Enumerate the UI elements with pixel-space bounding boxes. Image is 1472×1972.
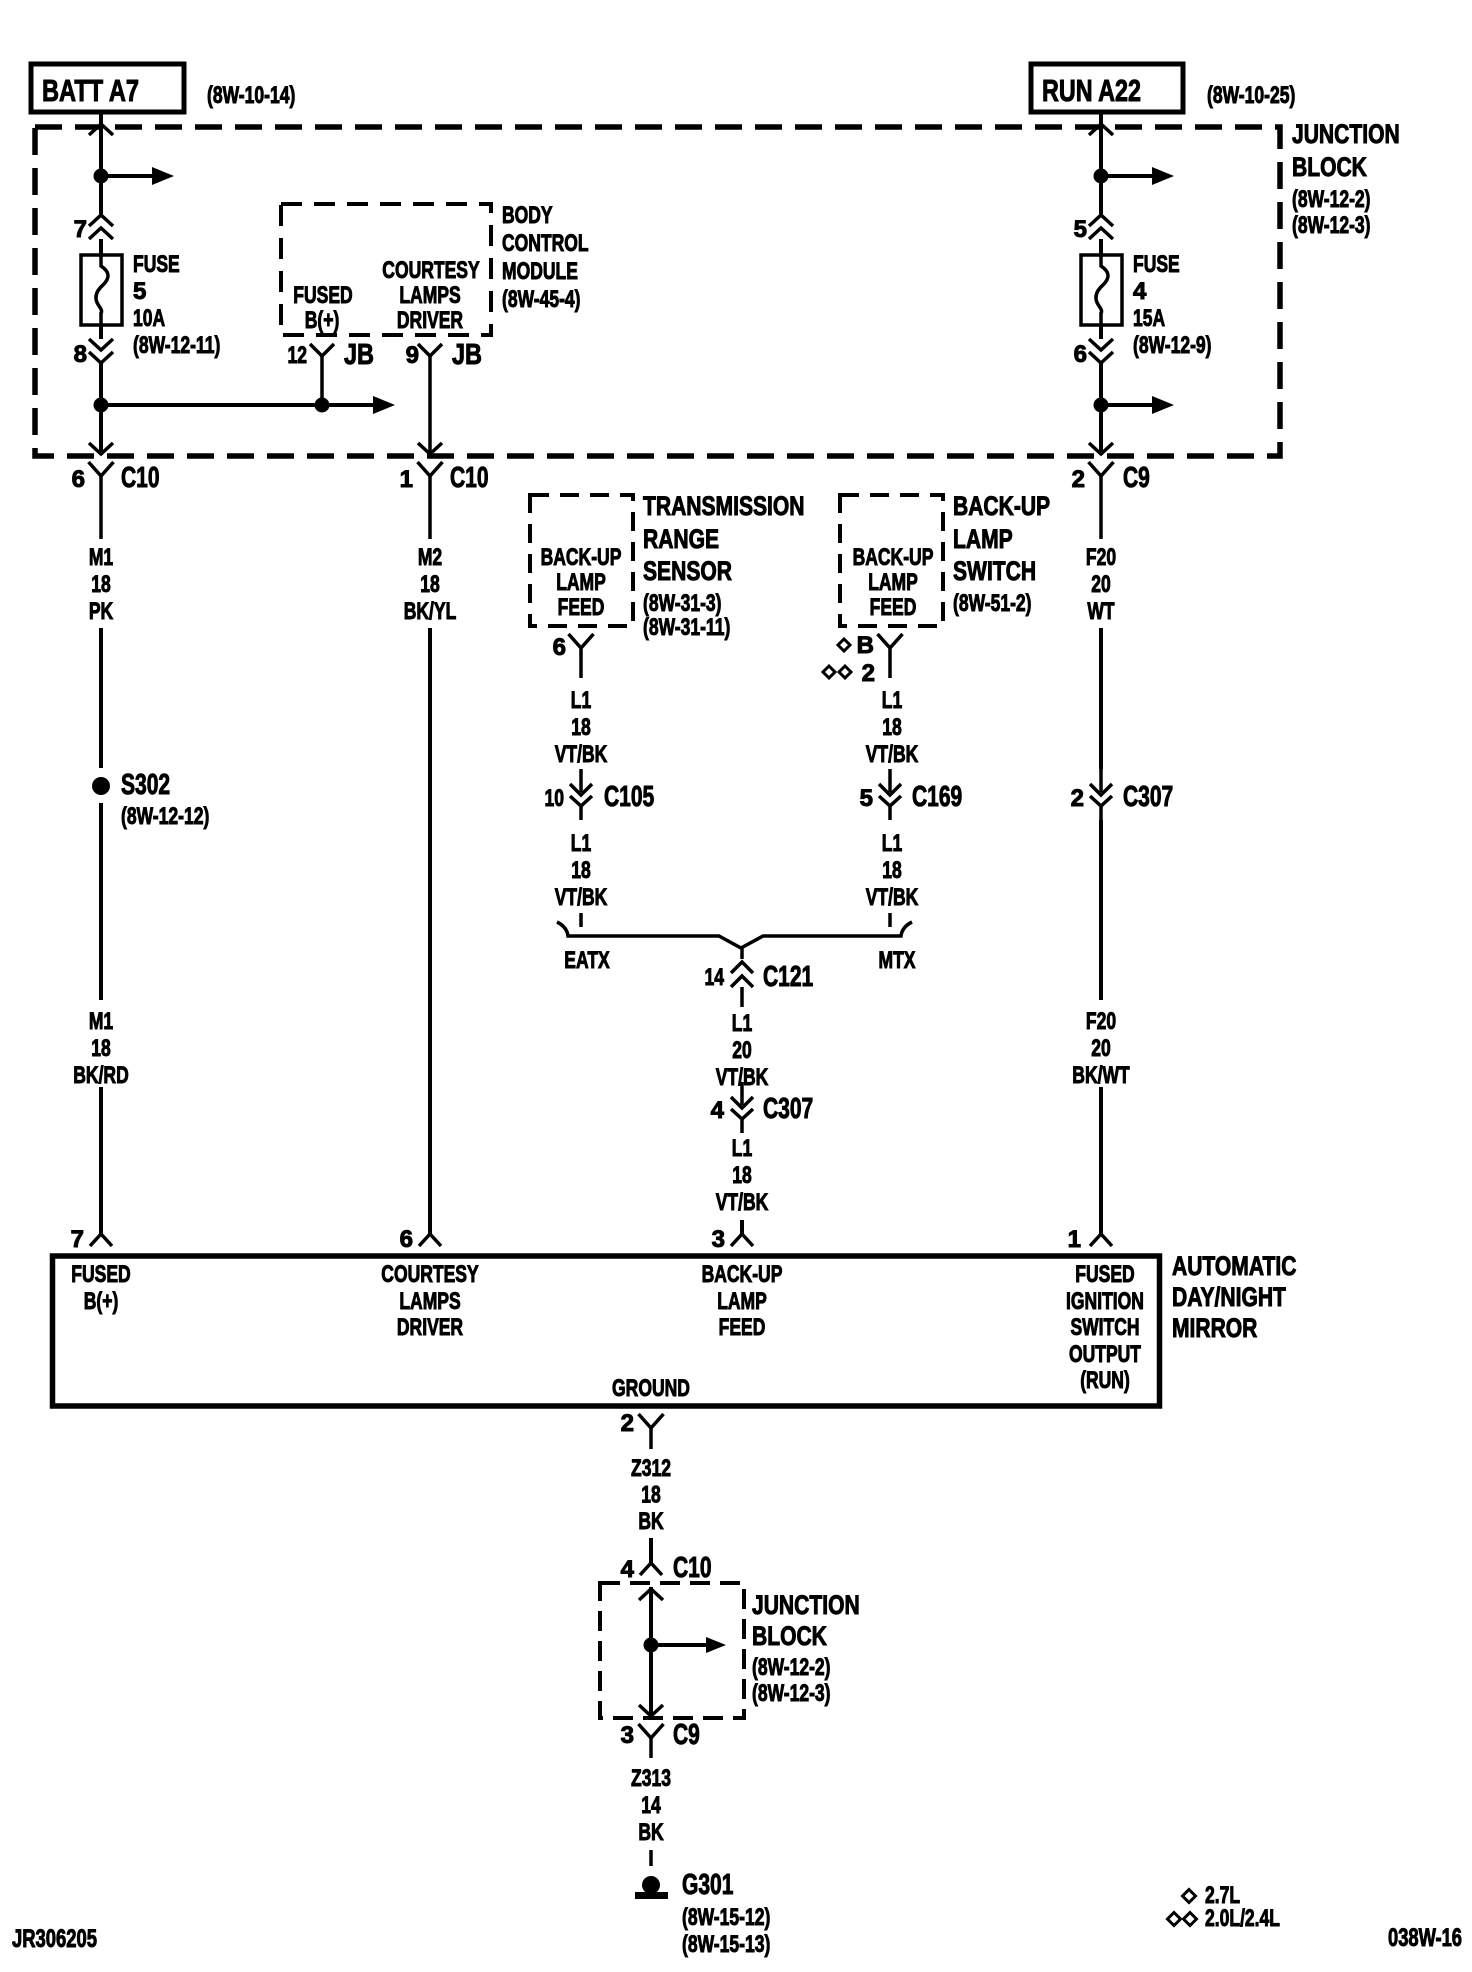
svg-text:BK/YL: BK/YL xyxy=(404,598,457,625)
svg-text:Z313: Z313 xyxy=(631,1765,671,1792)
svg-text:2: 2 xyxy=(1071,785,1084,812)
svg-text:20: 20 xyxy=(732,1037,752,1064)
svg-text:M1: M1 xyxy=(89,1008,113,1035)
svg-text:BACK-UP: BACK-UP xyxy=(953,491,1050,521)
svg-text:7: 7 xyxy=(74,216,87,243)
svg-text:(8W-31-3): (8W-31-3) xyxy=(643,590,722,617)
svg-text:8: 8 xyxy=(74,341,87,368)
svg-text:BACK-UP: BACK-UP xyxy=(702,1261,783,1288)
svg-text:B(+): B(+) xyxy=(84,1288,119,1315)
svg-text:MIRROR: MIRROR xyxy=(1172,1313,1257,1343)
svg-text:FEED: FEED xyxy=(558,594,605,621)
svg-text:JUNCTION: JUNCTION xyxy=(752,1590,860,1620)
svg-text:5: 5 xyxy=(133,278,146,305)
svg-text:C307: C307 xyxy=(763,1093,813,1125)
svg-text:SENSOR: SENSOR xyxy=(643,556,732,586)
svg-text:GROUND: GROUND xyxy=(612,1375,690,1402)
svg-text:BK/RD: BK/RD xyxy=(73,1062,129,1089)
svg-text:FUSE: FUSE xyxy=(133,251,180,278)
svg-text:VT/BK: VT/BK xyxy=(716,1189,769,1216)
svg-text:L1: L1 xyxy=(882,687,902,714)
svg-text:6: 6 xyxy=(553,634,566,661)
svg-text:(8W-15-12): (8W-15-12) xyxy=(682,1904,770,1931)
svg-text:(8W-45-4): (8W-45-4) xyxy=(502,286,581,313)
svg-text:20: 20 xyxy=(1091,1035,1111,1062)
svg-text:DAY/NIGHT: DAY/NIGHT xyxy=(1172,1282,1286,1312)
svg-text:C169: C169 xyxy=(912,781,962,813)
svg-text:WT: WT xyxy=(1087,598,1114,625)
svg-text:JR306205: JR306205 xyxy=(12,1925,97,1953)
svg-text:FUSED: FUSED xyxy=(1075,1261,1134,1288)
svg-text:LAMPS: LAMPS xyxy=(399,282,460,309)
svg-text:FUSED: FUSED xyxy=(293,282,352,309)
svg-text:MTX: MTX xyxy=(879,947,916,974)
svg-text:(8W-12-9): (8W-12-9) xyxy=(1133,332,1212,359)
svg-text:SWITCH: SWITCH xyxy=(1070,1314,1139,1341)
svg-text:C9: C9 xyxy=(673,1719,700,1751)
svg-text:L1: L1 xyxy=(571,687,591,714)
svg-text:2.0L/2.4L: 2.0L/2.4L xyxy=(1205,1905,1280,1932)
svg-text:10A: 10A xyxy=(133,305,165,332)
svg-text:18: 18 xyxy=(571,857,591,884)
svg-text:10: 10 xyxy=(545,785,565,812)
svg-text:VT/BK: VT/BK xyxy=(866,741,919,768)
svg-text:4: 4 xyxy=(1133,278,1147,305)
svg-text:1: 1 xyxy=(400,466,413,493)
svg-text:18: 18 xyxy=(91,1035,111,1062)
svg-text:B(+): B(+) xyxy=(305,307,340,334)
svg-text:15A: 15A xyxy=(1133,305,1165,332)
svg-text:LAMP: LAMP xyxy=(556,569,606,596)
svg-text:BK/WT: BK/WT xyxy=(1072,1062,1130,1089)
svg-text:COURTESY: COURTESY xyxy=(381,1261,478,1288)
svg-text:RANGE: RANGE xyxy=(643,524,719,554)
svg-text:BK: BK xyxy=(638,1508,664,1535)
svg-text:(8W-51-2): (8W-51-2) xyxy=(953,590,1032,617)
svg-text:(8W-12-2): (8W-12-2) xyxy=(1292,186,1371,213)
svg-text:5: 5 xyxy=(860,785,873,812)
svg-text:5: 5 xyxy=(1074,216,1087,243)
svg-text:IGNITION: IGNITION xyxy=(1066,1288,1144,1315)
svg-text:JB: JB xyxy=(344,339,374,371)
svg-text:9: 9 xyxy=(406,342,419,369)
svg-text:(8W-15-13): (8W-15-13) xyxy=(682,1931,770,1958)
svg-text:C10: C10 xyxy=(121,462,160,494)
svg-text:1: 1 xyxy=(1068,1226,1081,1253)
svg-text:VT/BK: VT/BK xyxy=(555,884,608,911)
svg-text:14: 14 xyxy=(641,1792,661,1819)
svg-text:18: 18 xyxy=(882,857,902,884)
svg-text:6: 6 xyxy=(1074,341,1087,368)
svg-text:BATT A7: BATT A7 xyxy=(42,73,139,108)
svg-text:BLOCK: BLOCK xyxy=(752,1621,827,1651)
svg-text:C10: C10 xyxy=(673,1552,712,1584)
svg-text:18: 18 xyxy=(420,571,440,598)
svg-text:LAMPS: LAMPS xyxy=(399,1288,460,1315)
svg-text:OUTPUT: OUTPUT xyxy=(1069,1341,1141,1368)
svg-text:LAMP: LAMP xyxy=(953,524,1013,554)
svg-text:(8W-12-3): (8W-12-3) xyxy=(752,1680,831,1707)
svg-text:12: 12 xyxy=(288,342,308,369)
svg-text:C10: C10 xyxy=(450,462,489,494)
svg-text:(8W-12-3): (8W-12-3) xyxy=(1292,212,1371,239)
svg-text:FUSED: FUSED xyxy=(71,1261,130,1288)
svg-text:LAMP: LAMP xyxy=(717,1288,767,1315)
svg-text:4: 4 xyxy=(711,1097,725,1124)
svg-text:Z312: Z312 xyxy=(631,1455,671,1482)
svg-text:F20: F20 xyxy=(1086,544,1116,571)
svg-text:(8W-31-11): (8W-31-11) xyxy=(643,614,730,641)
svg-text:(8W-12-12): (8W-12-12) xyxy=(121,803,209,830)
svg-text:L1: L1 xyxy=(732,1010,752,1037)
svg-text:M2: M2 xyxy=(418,544,442,571)
svg-text:FEED: FEED xyxy=(719,1314,766,1341)
svg-text:SWITCH: SWITCH xyxy=(953,556,1036,586)
svg-text:C121: C121 xyxy=(763,961,813,993)
svg-text:G301: G301 xyxy=(682,1869,733,1901)
svg-text:7: 7 xyxy=(71,1226,84,1253)
svg-text:DRIVER: DRIVER xyxy=(397,1314,463,1341)
svg-text:BACK-UP: BACK-UP xyxy=(853,544,934,571)
svg-text:JUNCTION: JUNCTION xyxy=(1292,119,1400,149)
svg-text:DRIVER: DRIVER xyxy=(397,307,463,334)
svg-text:M1: M1 xyxy=(89,544,113,571)
svg-text:18: 18 xyxy=(732,1162,752,1189)
svg-text:C307: C307 xyxy=(1123,781,1173,813)
svg-text:(8W-12-2): (8W-12-2) xyxy=(752,1654,831,1681)
svg-text:L1: L1 xyxy=(571,830,591,857)
svg-text:BODY: BODY xyxy=(502,202,553,229)
svg-text:3: 3 xyxy=(621,1722,634,1749)
svg-text:BACK-UP: BACK-UP xyxy=(541,544,622,571)
svg-text:C105: C105 xyxy=(604,781,654,813)
svg-text:CONTROL: CONTROL xyxy=(502,230,589,257)
svg-text:VT/BK: VT/BK xyxy=(555,741,608,768)
svg-text:18: 18 xyxy=(91,571,111,598)
svg-text:18: 18 xyxy=(882,714,902,741)
svg-text:LAMP: LAMP xyxy=(868,569,918,596)
svg-text:14: 14 xyxy=(705,964,725,991)
svg-text:2: 2 xyxy=(862,660,875,687)
svg-text:PK: PK xyxy=(89,598,114,625)
svg-text:C9: C9 xyxy=(1123,462,1150,494)
svg-text:2: 2 xyxy=(1072,466,1085,493)
svg-text:VT/BK: VT/BK xyxy=(866,884,919,911)
svg-text:18: 18 xyxy=(571,714,591,741)
svg-text:2: 2 xyxy=(621,1410,634,1437)
svg-text:(8W-10-14): (8W-10-14) xyxy=(207,82,295,109)
svg-text:BLOCK: BLOCK xyxy=(1292,152,1367,182)
svg-text:(RUN): (RUN) xyxy=(1080,1367,1130,1394)
svg-text:RUN A22: RUN A22 xyxy=(1042,73,1141,108)
svg-text:L1: L1 xyxy=(732,1135,752,1162)
svg-text:(8W-10-25): (8W-10-25) xyxy=(1207,82,1295,109)
svg-text:COURTESY: COURTESY xyxy=(382,257,479,284)
svg-text:FEED: FEED xyxy=(870,594,917,621)
svg-text:S302: S302 xyxy=(121,769,170,801)
svg-text:6: 6 xyxy=(72,466,85,493)
svg-text:BK: BK xyxy=(638,1819,664,1846)
svg-text:F20: F20 xyxy=(1086,1008,1116,1035)
svg-text:3: 3 xyxy=(712,1226,725,1253)
svg-text:B: B xyxy=(857,632,874,659)
svg-text:18: 18 xyxy=(641,1482,661,1509)
svg-text:6: 6 xyxy=(400,1226,413,1253)
svg-text:20: 20 xyxy=(1091,571,1111,598)
svg-text:AUTOMATIC: AUTOMATIC xyxy=(1172,1251,1296,1281)
svg-text:EATX: EATX xyxy=(564,947,609,974)
svg-text:(8W-12-11): (8W-12-11) xyxy=(133,332,220,359)
svg-text:4: 4 xyxy=(621,1556,635,1583)
svg-text:JB: JB xyxy=(452,339,482,371)
svg-text:MODULE: MODULE xyxy=(502,258,578,285)
svg-text:038W-16: 038W-16 xyxy=(1388,1924,1462,1952)
svg-text:FUSE: FUSE xyxy=(1133,251,1180,278)
svg-text:L1: L1 xyxy=(882,830,902,857)
svg-text:TRANSMISSION: TRANSMISSION xyxy=(643,491,805,521)
